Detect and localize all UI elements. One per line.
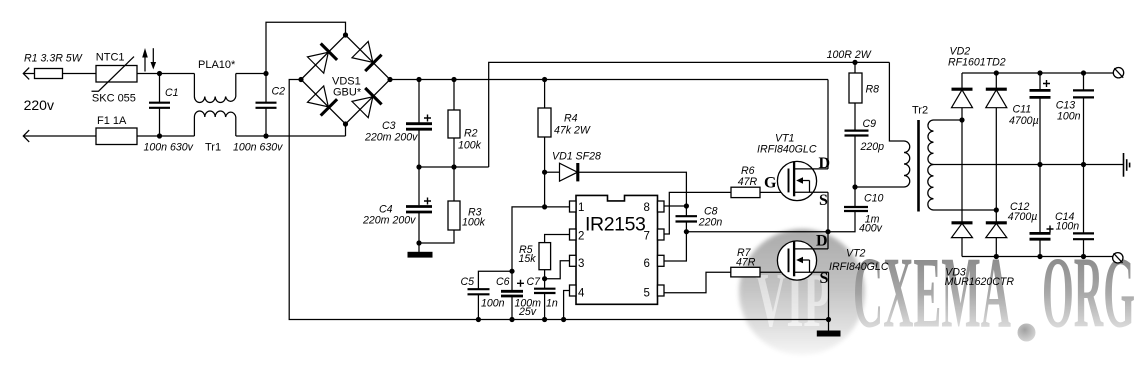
pin 7 [644, 229, 665, 243]
svg-text:RF1601TD2: RF1601TD2 [948, 57, 1006, 69]
capacitor C3 [364, 77, 432, 167]
bridge diode top-right [352, 41, 382, 71]
capacitor C11 [1009, 73, 1051, 165]
svg-text:D: D [816, 232, 828, 249]
resistor R4 [538, 77, 591, 172]
bridge diode bottom-right [352, 88, 382, 118]
wire bridge bottom vertex riser [345, 124, 347, 136]
svg-text:4: 4 [578, 288, 585, 300]
wire AC line input arrow bottom [23, 130, 194, 142]
node C4 bottom junction [416, 240, 421, 245]
svg-text:Tr1: Tr1 [205, 142, 221, 154]
capacitor C5 [461, 271, 513, 319]
svg-text:C2: C2 [272, 86, 286, 98]
node VT1 source junction [825, 229, 830, 234]
node center tap rail junctions [1037, 162, 1042, 167]
bottom bus junction dots [476, 317, 481, 322]
svg-text:C7: C7 [527, 276, 542, 288]
svg-text:220v: 220v [24, 97, 54, 113]
adjustment arrow up [142, 48, 148, 72]
diode VD2b [986, 73, 1007, 223]
bridge VDS1 diamond [301, 35, 390, 124]
svg-text:15k: 15k [519, 253, 537, 265]
capacitor C9 [845, 118, 885, 187]
wire choke bottom right to bridge [236, 135, 346, 137]
wire snubber rail down to primary top [889, 62, 904, 141]
node primary bottom junction [852, 184, 857, 189]
svg-text:2: 2 [578, 231, 584, 243]
svg-text:G: G [764, 175, 777, 192]
capacitor C12 [1008, 165, 1054, 257]
svg-text:220m 200v: 220m 200v [364, 132, 418, 144]
node C1 bottom junction [157, 133, 162, 138]
svg-text:5: 5 [644, 288, 650, 300]
wire C2 node riser to top rail [266, 22, 346, 73]
svg-text:100k: 100k [458, 140, 482, 152]
svg-text:7: 7 [644, 231, 650, 243]
wire VD1 cathode to pin8 node [578, 172, 686, 206]
svg-text:4700µ: 4700µ [1009, 115, 1039, 127]
svg-text:F1 1A: F1 1A [97, 115, 127, 127]
node C5 C6 junction [509, 269, 514, 274]
svg-text:MUR1620CTR: MUR1620CTR [945, 276, 1015, 288]
resistor R3 [419, 167, 486, 243]
svg-text:1: 1 [578, 202, 584, 214]
wire choke to C2 node [236, 73, 266, 75]
svg-text:3: 3 [578, 258, 584, 270]
pin 6 [644, 255, 665, 270]
choke Tr1 bottom winding [194, 111, 235, 154]
node pin1 rail junction [542, 204, 547, 209]
wire pin1 rail [512, 207, 570, 271]
svg-text:CXEMA: CXEMA [853, 237, 1011, 350]
svg-text:220p: 220p [860, 141, 885, 153]
pin 3 [570, 255, 585, 270]
wire plus output rail [962, 72, 1113, 74]
svg-text:S: S [819, 192, 828, 209]
transformer Tr2 secondary top [928, 120, 962, 165]
svg-text:R8: R8 [866, 84, 880, 96]
wire VT1 drain riser [827, 80, 829, 169]
wire center tap rail [934, 164, 1124, 166]
svg-text:4700µ: 4700µ [1008, 211, 1038, 223]
wire pin8 to C8 node [664, 205, 686, 207]
capacitor C6 [496, 271, 541, 319]
wire VS node to VT1 source [686, 231, 828, 233]
capacitor C4 [362, 167, 432, 252]
svg-text:PLA10*: PLA10* [198, 59, 236, 71]
wire VT1 source to VS node [827, 192, 829, 249]
svg-text:NTC1: NTC1 [96, 52, 125, 64]
svg-text:100n 630v: 100n 630v [233, 142, 283, 154]
transistor VT2 [777, 232, 888, 287]
wire DC plus rail [390, 79, 828, 81]
adjustment arrow down [151, 48, 157, 69]
wire pin7 to R6 [664, 192, 731, 234]
svg-text:C10: C10 [864, 193, 884, 205]
wire pin5 to R7 [664, 272, 731, 293]
node bridge right vertex [387, 77, 392, 82]
svg-text:25v: 25v [518, 306, 537, 318]
bridge diode bottom-left [307, 86, 337, 116]
wire pin3 to C7 node [545, 261, 570, 279]
transformer Tr2 primary [855, 105, 928, 188]
pin 4 [570, 285, 586, 300]
transformer Tr2 secondary bottom [928, 165, 997, 211]
earth ground symbol [1124, 153, 1130, 177]
svg-text:8: 8 [644, 202, 650, 214]
svg-text:C5: C5 [461, 276, 475, 288]
ground bar right [817, 331, 841, 337]
diode VD3b [986, 223, 1007, 257]
svg-text:47R: 47R [738, 176, 758, 188]
wire minus output rail [962, 256, 1113, 258]
svg-text:VD1 SF28: VD1 SF28 [552, 151, 601, 163]
watermark CXEMA.ORG text [853, 237, 1135, 350]
svg-text:R4: R4 [564, 113, 578, 125]
wire AC line input arrow top [23, 68, 34, 80]
wire mid rail riser to snubber rail [489, 62, 890, 167]
wire R1 to NTC1 [63, 73, 97, 75]
svg-text:VT2: VT2 [846, 248, 866, 260]
svg-text:R2: R2 [464, 128, 478, 140]
svg-text:100R 2W: 100R 2W [827, 49, 872, 61]
node bridge bottom vertex [343, 121, 348, 126]
capacitor C8 [676, 206, 723, 232]
node VD1 anode junction [542, 170, 547, 175]
svg-text:47k 2W: 47k 2W [554, 125, 591, 137]
node ground bus junction [826, 317, 831, 322]
wire VT2 source to ground bus [828, 272, 830, 330]
resistor R2 [448, 77, 482, 167]
wire mid rail [419, 166, 489, 168]
svg-text:400v: 400v [859, 223, 883, 235]
capacitor C13 [1056, 73, 1094, 165]
svg-text:IRFI840GLC: IRFI840GLC [757, 144, 817, 156]
transformer Tr2 core [917, 120, 920, 212]
diode VD2a [948, 46, 1006, 120]
node A junction [157, 71, 162, 76]
svg-text:100n: 100n [1057, 110, 1081, 122]
svg-text:100n: 100n [481, 298, 505, 310]
svg-text:IRFI840GLC: IRFI840GLC [829, 261, 889, 273]
svg-text:SKC 055: SKC 055 [92, 92, 136, 104]
node C2 bottom junction [263, 133, 268, 138]
watermark VIP text [755, 257, 830, 343]
node VS junction at C8 bottom [684, 229, 689, 234]
svg-text:220m 200v: 220m 200v [362, 215, 416, 227]
capacitor C10 [844, 187, 884, 235]
svg-text:C11: C11 [1013, 104, 1032, 116]
wire VS to C10 [828, 211, 855, 231]
svg-text:S: S [820, 270, 829, 287]
resistor R6 [731, 165, 789, 198]
pin 8 [644, 201, 665, 214]
svg-text:C6: C6 [496, 276, 510, 288]
terminal minus output [1113, 253, 1123, 263]
capacitor C1 [144, 74, 194, 154]
diode VD1 [545, 151, 601, 182]
svg-text:R1 3.3R 5W: R1 3.3R 5W [24, 53, 83, 65]
svg-text:100n: 100n [1056, 221, 1080, 233]
svg-text:1n: 1n [546, 298, 558, 310]
resistor R7 [731, 247, 789, 277]
node C2 top junction [263, 71, 268, 76]
wire bridge minus to bottom bus [289, 80, 828, 320]
watermark circle [739, 229, 865, 355]
op-amp U1 IR2153 body [576, 195, 658, 304]
pin 1 [570, 201, 585, 214]
svg-text:47R: 47R [736, 257, 756, 269]
node C7 top junction [542, 276, 547, 281]
capacitor C14 [1055, 165, 1094, 257]
wire VD2a down to VD3a [961, 120, 963, 223]
resistor R8 [827, 49, 880, 130]
wire pin6 riser to VS node [664, 232, 686, 261]
diode VD3a [945, 223, 1015, 288]
bridge diode top-left [307, 44, 337, 74]
svg-text:Tr2: Tr2 [912, 105, 928, 117]
wire R4 node down to pin1 rail [544, 172, 546, 207]
svg-text:100n 630v: 100n 630v [144, 142, 194, 154]
pin 2 [570, 229, 585, 243]
resistor R1 [24, 53, 83, 79]
fuse F1 [96, 115, 137, 145]
node bridge top vertex [343, 32, 348, 37]
wire NTC1 to node A [137, 73, 194, 75]
svg-text:220n: 220n [698, 216, 723, 228]
capacitor C2 [233, 74, 285, 154]
ground bar left [408, 252, 433, 258]
resistor R5 [519, 235, 570, 279]
terminal plus output [1113, 68, 1123, 78]
svg-text:IR2153: IR2153 [585, 214, 645, 236]
transistor VT1 [757, 133, 830, 210]
node pin8 C8 junction [684, 203, 689, 208]
node bridge left vertex [298, 77, 303, 82]
capacitor C7 [527, 276, 558, 320]
node secondary bottom junction [994, 207, 999, 212]
svg-text:C3: C3 [382, 120, 396, 132]
svg-text:6: 6 [644, 258, 650, 270]
node secondary top junction [959, 117, 964, 122]
wire pin4 to ground bus [564, 291, 570, 320]
svg-text:C1: C1 [165, 87, 179, 99]
svg-text:100k: 100k [462, 217, 486, 229]
pin 5 [644, 285, 665, 300]
svg-text:GBU*: GBU* [333, 87, 362, 99]
choke Tr1 top winding [194, 59, 236, 103]
svg-text:C9: C9 [863, 118, 877, 130]
thermistor NTC1 [92, 52, 138, 105]
